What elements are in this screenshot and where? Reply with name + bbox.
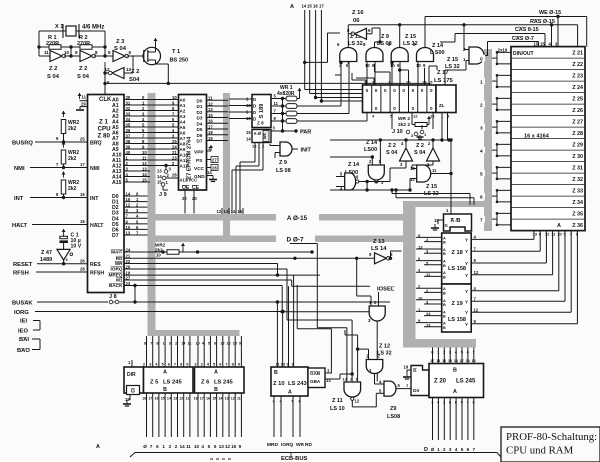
- svg-text:Z 2: Z 2: [49, 66, 57, 72]
- svg-text:INT: INT: [14, 196, 24, 202]
- svg-text:A0: A0: [180, 98, 186, 103]
- svg-text:9: 9: [239, 342, 241, 346]
- svg-text:A8: A8: [180, 142, 186, 147]
- svg-text:15: 15: [231, 444, 237, 449]
- svg-text:B: B: [214, 387, 218, 393]
- svg-text:10: 10: [196, 342, 200, 346]
- svg-text:D2: D2: [197, 110, 203, 115]
- svg-text:BUSRQ: BUSRQ: [12, 141, 33, 147]
- svg-text:7: 7: [480, 217, 483, 223]
- svg-text:Z 18: Z 18: [452, 250, 463, 256]
- svg-text:1: 1: [480, 79, 483, 85]
- svg-text:14: 14: [207, 170, 212, 175]
- svg-text:IOSEL: IOSEL: [377, 287, 395, 293]
- gate Z15 LS32 (mid): [417, 165, 431, 182]
- wire S189 sub pins down: [254, 143, 256, 163]
- svg-text:LS 245: LS 245: [214, 380, 233, 386]
- ground at J10: [419, 135, 421, 137]
- svg-text:LS 08: LS 08: [276, 168, 291, 174]
- IC Z19 LS158: [442, 284, 472, 332]
- svg-text:LS 32: LS 32: [403, 41, 418, 47]
- svg-text:14: 14: [426, 311, 431, 316]
- svg-text:6: 6: [467, 447, 470, 452]
- svg-text:B: B: [443, 315, 446, 319]
- svg-text:D7: D7: [112, 233, 119, 239]
- dashes under Z6: [210, 458, 231, 460]
- svg-text:Z 9: Z 9: [381, 34, 389, 40]
- IC Z18 LS158: [442, 233, 472, 284]
- svg-text:CLK: CLK: [99, 97, 112, 103]
- svg-text:A5: A5: [180, 125, 186, 130]
- svg-text:ZL: ZL: [439, 103, 445, 108]
- svg-text:0: 0: [480, 56, 483, 62]
- svg-text:A6: A6: [180, 131, 186, 136]
- svg-text:VCC: VCC: [194, 166, 205, 172]
- svg-text:13: 13: [281, 362, 286, 367]
- svg-text:B: B: [443, 252, 446, 256]
- svg-text:19: 19: [208, 136, 213, 141]
- bus: horizontal address bus A0-15: [148, 214, 416, 221]
- gate Z9 LS08 INIT: [280, 142, 292, 156]
- wire A14 tap to right: [305, 61, 328, 63]
- svg-text:15: 15: [233, 342, 237, 346]
- svg-text:10: 10: [557, 232, 562, 237]
- svg-text:17: 17: [80, 162, 85, 167]
- inverter Z2 S04 first: [38, 47, 40, 56]
- svg-text:GBA: GBA: [310, 379, 321, 384]
- svg-text:2x16: 2x16: [498, 48, 508, 53]
- svg-text:Z 17: Z 17: [437, 70, 449, 76]
- svg-text:M1: M1: [116, 278, 123, 283]
- node PAR: [271, 130, 296, 132]
- svg-text:IORQ: IORQ: [111, 267, 123, 272]
- svg-text:GAB: GAB: [310, 371, 321, 376]
- wire WE line: [425, 16, 587, 18]
- svg-text:Z 31: Z 31: [572, 166, 583, 172]
- resistor R1 220R: [39, 46, 49, 48]
- svg-text:A: A: [453, 389, 457, 395]
- svg-text:CPU und RAM: CPU und RAM: [506, 445, 574, 457]
- svg-text:LS08: LS08: [387, 414, 400, 420]
- svg-text:12: 12: [545, 232, 550, 237]
- svg-text:Z 15: Z 15: [405, 34, 416, 40]
- svg-text:12: 12: [208, 101, 213, 106]
- svg-text:Z 36: Z 36: [572, 223, 583, 229]
- resistor R2 270R: [71, 46, 80, 48]
- svg-text:9: 9: [75, 50, 78, 55]
- svg-text:A: A: [163, 370, 167, 376]
- svg-text:7: 7: [150, 444, 153, 449]
- svg-text:16: 16: [442, 359, 446, 363]
- svg-text:15: 15: [540, 42, 545, 47]
- svg-text:5: 5: [480, 171, 483, 177]
- svg-text:12: 12: [246, 103, 251, 108]
- svg-text:Z 14: Z 14: [366, 140, 378, 146]
- svg-text:G: G: [445, 223, 448, 228]
- svg-text:LS 158: LS 158: [448, 317, 466, 323]
- svg-text:28: 28: [80, 267, 85, 272]
- svg-text:11: 11: [186, 397, 190, 401]
- svg-text:7: 7: [473, 447, 476, 452]
- svg-text:6: 6: [473, 401, 475, 405]
- svg-text:A2: A2: [180, 109, 186, 114]
- svg-text:8: 8: [156, 342, 158, 346]
- bus: vertical gray bus V1 right of CPU (A/D bus riser): [148, 93, 156, 336]
- svg-text:26: 26: [172, 173, 177, 178]
- svg-text:B: B: [274, 370, 278, 376]
- wire horizontal y157: [330, 156, 372, 158]
- svg-text:S 189: S 189: [259, 104, 265, 119]
- svg-text:12: 12: [355, 399, 360, 404]
- wires LS175 clock pins down: [441, 113, 443, 141]
- svg-text:INIT: INIT: [301, 148, 312, 154]
- node A0-15 bus label: [276, 213, 319, 222]
- wire A14 vertical: [304, 10, 306, 90]
- svg-text:Y: Y: [465, 310, 468, 315]
- svg-text:D6: D6: [197, 133, 203, 138]
- svg-text:Z 15: Z 15: [426, 184, 437, 190]
- svg-text:2: 2: [175, 444, 178, 449]
- wire NAND outputs y181.5: [359, 181, 390, 183]
- svg-text:A3: A3: [180, 114, 186, 119]
- svg-text:Y: Y: [465, 273, 468, 278]
- svg-text:27: 27: [212, 158, 217, 163]
- svg-text:11: 11: [274, 101, 279, 106]
- svg-text:16 x 4164: 16 x 4164: [524, 134, 550, 140]
- svg-text:17: 17: [208, 124, 213, 129]
- svg-text:Y: Y: [465, 261, 468, 266]
- svg-text:LS 243: LS 243: [288, 381, 307, 387]
- svg-text:RES: RES: [90, 262, 101, 268]
- svg-text:Z 14: Z 14: [348, 162, 360, 168]
- svg-text:18: 18: [142, 397, 146, 401]
- svg-text:18: 18: [80, 219, 85, 224]
- svg-text:11: 11: [432, 168, 437, 173]
- svg-text:S04: S04: [129, 77, 140, 83]
- svg-text:12: 12: [474, 307, 479, 312]
- svg-text:4: 4: [480, 148, 483, 154]
- svg-text:A4: A4: [180, 120, 186, 125]
- wire horizontal y140: [330, 139, 451, 141]
- svg-text:PS: PS: [196, 158, 203, 164]
- svg-text:0: 0: [375, 88, 378, 93]
- svg-text:IEO: IEO: [18, 329, 28, 335]
- svg-text:14: 14: [246, 137, 251, 142]
- svg-text:26: 26: [80, 259, 85, 264]
- svg-text:Z 14: Z 14: [432, 43, 444, 49]
- svg-text:Z 33: Z 33: [572, 189, 583, 195]
- svg-text:Z 32: Z 32: [572, 177, 583, 183]
- svg-text:S 04: S 04: [414, 150, 426, 156]
- svg-text:16: 16: [313, 4, 318, 9]
- svg-text:17: 17: [200, 397, 204, 401]
- svg-text:0: 0: [366, 88, 369, 93]
- svg-text:11: 11: [187, 342, 191, 346]
- svg-text:B: B: [443, 241, 446, 245]
- svg-text:D0: D0: [197, 98, 203, 103]
- svg-text:17: 17: [319, 4, 324, 9]
- svg-text:DIR: DIR: [127, 372, 136, 378]
- svg-text:10: 10: [156, 253, 161, 258]
- svg-text:10: 10: [172, 95, 177, 100]
- svg-text:Z 2: Z 2: [388, 143, 396, 149]
- svg-text:A15: A15: [112, 180, 122, 186]
- wire A15 vertical: [309, 10, 311, 94]
- IC Z8 S189: [252, 95, 271, 128]
- svg-text:A12: A12: [180, 164, 189, 169]
- svg-text:23: 23: [172, 155, 177, 160]
- capacitor C1 10u 10V polarized: [63, 229, 65, 235]
- svg-text:B: B: [443, 275, 446, 279]
- svg-text:Y: Y: [465, 249, 468, 254]
- svg-text:Z 21: Z 21: [572, 51, 583, 57]
- svg-text:Z 19: Z 19: [452, 301, 463, 307]
- svg-text:Z 1: Z 1: [99, 119, 108, 126]
- svg-text:Z 25: Z 25: [572, 97, 583, 103]
- svg-text:6: 6: [480, 194, 483, 200]
- wire RD line: [124, 263, 278, 265]
- svg-text:7: 7: [467, 401, 469, 405]
- svg-text:A9: A9: [180, 147, 186, 152]
- gate Z15 LS32 (2): [391, 47, 408, 61]
- svg-text:3: 3: [169, 444, 172, 449]
- wire MREQ line: [124, 279, 292, 281]
- svg-text:Z 16: Z 16: [352, 10, 364, 16]
- svg-text:G: G: [131, 389, 135, 395]
- IC Z7 EPROM 2764: [179, 95, 207, 191]
- svg-text:BUSAK: BUSAK: [12, 301, 33, 307]
- svg-text:6: 6: [129, 50, 132, 55]
- svg-text:NMI: NMI: [14, 166, 25, 172]
- svg-text:CAS 8-15: CAS 8-15: [515, 27, 539, 33]
- svg-text:OE: OE: [182, 185, 190, 191]
- svg-text:D3: D3: [197, 116, 203, 121]
- gate Z9 LS08 (IOSEL, down): [369, 306, 385, 321]
- svg-text:8: 8: [95, 50, 98, 55]
- svg-text:MRD: MRD: [267, 442, 278, 448]
- IC Z6 LS245: [195, 367, 245, 393]
- svg-text:D5: D5: [197, 127, 203, 132]
- gate Z15 LS32 (1): [340, 47, 357, 61]
- svg-text:15: 15: [534, 42, 539, 47]
- wires Z11 inputs from above: [346, 328, 348, 382]
- svg-text:0: 0: [384, 88, 387, 93]
- svg-text:/B: /B: [456, 218, 461, 224]
- svg-text:15: 15: [448, 359, 452, 363]
- svg-text:RFSH: RFSH: [13, 271, 29, 277]
- IC Z20 G/Dir box: [411, 366, 429, 396]
- svg-text:RD: RD: [305, 442, 312, 448]
- svg-text:4/6 MHz: 4/6 MHz: [82, 25, 104, 31]
- wires D-bus to S189 inputs: [229, 98, 252, 100]
- wires S189 outputs through WR1: [271, 98, 286, 100]
- svg-text:J 10: J 10: [392, 129, 403, 135]
- wire CAS 0-7 line: [488, 41, 539, 43]
- bus: horizontal data bus D0-7: [148, 236, 416, 243]
- RAM left data taps: [497, 51, 511, 53]
- svg-text:14: 14: [231, 209, 236, 214]
- svg-text:16: 16: [80, 192, 85, 197]
- svg-text:S 04: S 04: [114, 46, 127, 52]
- svg-text:BAO: BAO: [17, 348, 30, 354]
- svg-text:9: 9: [239, 444, 242, 449]
- IC Z5 LS245: [124, 367, 144, 393]
- svg-text:11: 11: [82, 95, 87, 100]
- svg-text:19: 19: [404, 365, 409, 370]
- svg-text:1: 1: [162, 444, 165, 449]
- svg-text:L S00: L S00: [430, 50, 445, 56]
- svg-text:1: 1: [437, 447, 440, 452]
- svg-text:Y: Y: [465, 322, 468, 327]
- svg-text:IORG: IORG: [14, 310, 29, 316]
- svg-text:13: 13: [454, 359, 458, 363]
- svg-text:2: 2: [443, 447, 446, 452]
- svg-text:Z 6: Z 6: [201, 380, 210, 386]
- svg-text:RESET: RESET: [13, 262, 33, 268]
- svg-text:06: 06: [353, 18, 360, 24]
- svg-text:WAIT: WAIT: [111, 250, 123, 255]
- svg-text:Z 2: Z 2: [131, 69, 139, 75]
- svg-text:0: 0: [430, 106, 433, 111]
- IC A/B select box: [444, 214, 472, 231]
- svg-text:12: 12: [225, 444, 231, 449]
- svg-text:B: B: [443, 264, 446, 268]
- svg-text:Z 12: Z 12: [379, 344, 390, 350]
- svg-text:1489: 1489: [40, 257, 52, 263]
- svg-text:13: 13: [225, 397, 229, 401]
- transistor T1 BS 250: [127, 55, 143, 57]
- IC Z10 GAB/GBA box: [308, 368, 325, 388]
- svg-text:5: 5: [208, 444, 211, 449]
- IC Z1 CPU Z80: [88, 95, 125, 293]
- wire CLK distribution long: [168, 82, 430, 84]
- svg-text:2k2: 2k2: [68, 126, 77, 132]
- svg-text:17: 17: [430, 359, 434, 363]
- svg-text:D: D: [253, 104, 256, 109]
- svg-text:Z 8: Z 8: [257, 121, 264, 126]
- svg-text:270R: 270R: [77, 41, 90, 47]
- svg-text:PROF-80-Schaltung:: PROF-80-Schaltung:: [506, 431, 597, 443]
- svg-text:5: 5: [461, 447, 464, 452]
- node A-bus entry ticks 12-15: [221, 208, 223, 214]
- svg-text:A: A: [288, 390, 292, 396]
- svg-text:5: 5: [461, 401, 463, 405]
- svg-text:LS 245: LS 245: [456, 379, 476, 385]
- power pins CPU 11/29: [79, 93, 81, 99]
- svg-text:B: B: [443, 303, 446, 307]
- svg-text:15: 15: [208, 113, 213, 118]
- svg-text:J 9: J 9: [159, 192, 167, 198]
- svg-text:T 1: T 1: [172, 49, 180, 55]
- svg-text:Z 30: Z 30: [572, 154, 583, 160]
- svg-text:X 1: X 1: [55, 24, 63, 30]
- svg-text:12: 12: [231, 397, 235, 401]
- inverter Z2 S04 second: [80, 51, 92, 62]
- svg-text:WR: WR: [115, 261, 123, 266]
- svg-text:A: A: [290, 4, 294, 10]
- node D0-7 bus label: [276, 234, 315, 244]
- svg-text:B: B: [453, 368, 457, 374]
- wire osc stage1-2: [64, 55, 71, 57]
- svg-text:12: 12: [410, 177, 415, 182]
- svg-text:5: 5: [208, 342, 210, 346]
- svg-text:0: 0: [402, 88, 405, 93]
- svg-text:15: 15: [246, 130, 251, 135]
- wire osc stage2-3: [94, 55, 105, 57]
- svg-text:DIN/OUT: DIN/OUT: [513, 51, 534, 57]
- wire address lines A0-A12 CPU to EPROM: [124, 99, 179, 101]
- svg-text:2k2: 2k2: [68, 156, 77, 162]
- gate Z14 LS00 (row): [417, 47, 434, 61]
- svg-text:11: 11: [44, 50, 49, 55]
- svg-text:12: 12: [227, 342, 231, 346]
- IC Z20 LS245: [429, 364, 484, 398]
- svg-text:11: 11: [186, 444, 191, 449]
- svg-text:WE: WE: [263, 132, 267, 139]
- wires gates to LS175: [347, 62, 349, 65]
- svg-text:2: 2: [480, 102, 483, 108]
- svg-text:3: 3: [480, 125, 483, 131]
- svg-text:RFSH: RFSH: [90, 271, 104, 277]
- svg-text:13: 13: [426, 322, 431, 327]
- svg-text:2k2: 2k2: [68, 186, 77, 192]
- svg-text:0: 0: [430, 88, 433, 93]
- wires WR1 to gate column: [297, 105, 341, 107]
- svg-text:6: 6: [156, 444, 159, 449]
- wire BACK line: [124, 285, 282, 287]
- svg-text:21: 21: [172, 150, 177, 155]
- svg-text:Z 2: Z 2: [416, 143, 424, 149]
- svg-text:220R: 220R: [46, 41, 59, 47]
- svg-text:Y: Y: [465, 299, 468, 304]
- svg-text:Dir: Dir: [413, 388, 420, 394]
- svg-text:BRQ: BRQ: [90, 141, 102, 147]
- svg-text:1: 1: [163, 342, 165, 346]
- svg-text:25: 25: [80, 137, 85, 142]
- svg-text:A-Ø: A-Ø: [254, 131, 262, 136]
- svg-text:BACK: BACK: [109, 283, 123, 288]
- bus: vertical gray bus V2 right of EPROM: [223, 93, 230, 242]
- bus: horizontal gray bus feeding Z5/Z6 address drivers: [148, 330, 240, 336]
- svg-text:15: 15: [161, 397, 165, 401]
- svg-text:12: 12: [179, 397, 183, 401]
- gate Z15 LS32 (3) right-point: [469, 47, 484, 64]
- wires A14-17 drop to gates: [282, 99, 284, 132]
- svg-text:LS 14: LS 14: [371, 246, 387, 252]
- svg-text:J 8: J 8: [109, 294, 117, 300]
- wire riser x317 to Z11 area: [316, 244, 318, 328]
- resistor WR2 2k2 pullup 3: [61, 180, 66, 194]
- svg-text:25: 25: [172, 139, 177, 144]
- svg-text:A: A: [214, 370, 218, 376]
- svg-text:2: 2: [443, 401, 445, 405]
- resistor WR2 2k2 pullup 2: [61, 150, 66, 164]
- svg-text:Z 24: Z 24: [572, 85, 583, 91]
- svg-text:13: 13: [418, 245, 423, 250]
- svg-text:3: 3: [169, 342, 171, 346]
- IC RAM block Z21-Z36 16x4164: [511, 47, 585, 231]
- svg-text:Z 10: Z 10: [273, 381, 285, 387]
- svg-text:CE: CE: [192, 185, 200, 191]
- wire address lines A13-A15 into bus V1: [124, 170, 150, 172]
- bus: upper horizontal gray bus to RAM data: [403, 201, 490, 207]
- svg-text:0: 0: [412, 106, 415, 111]
- svg-text:Z 9: Z 9: [279, 160, 287, 166]
- svg-text:6: 6: [107, 80, 110, 85]
- svg-text:29: 29: [81, 102, 86, 107]
- svg-text:IEI: IEI: [20, 319, 27, 325]
- IC Z10 LS243: [271, 367, 308, 396]
